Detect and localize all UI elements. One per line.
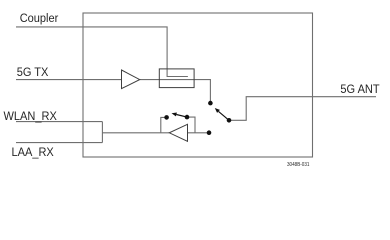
wire: 5G TX input to amplifier [16,79,122,81]
wire: WLAN_RX line (top of diplexer box) [16,121,102,123]
antenna switch pole dot [227,118,232,123]
antenna switch lever arrowhead [215,108,220,113]
wire: LAA_RX line (bottom of diplexer box) [16,142,102,144]
wire: amplifier output through filter to switch throw [140,80,211,104]
wire: bypass switch right leg [187,117,195,133]
bypass switch lever [176,115,187,118]
svg-text:Coupler: Coupler [20,13,59,25]
wire: switch pole to 5G ANT port [229,97,376,121]
svg-text:3048B-031: 3048B-031 [287,162,310,168]
svg-text:5G TX: 5G TX [17,66,49,78]
amplifier (TX PA) [122,70,140,89]
module box (FEM outline) [83,13,313,157]
antenna switch throw dot (RX) [207,130,212,135]
bypass switch right dot [185,115,190,120]
svg-text:LAA_RX: LAA_RX [12,147,55,159]
antenna switch lever [219,111,230,120]
bypass switch lever arrowhead [172,113,177,117]
svg-text:5G ANT: 5G ANT [340,83,379,95]
diplexer box right edge [101,122,103,143]
LNA (RX amplifier, pointing left) [169,124,187,141]
filter / coupler box [159,69,194,88]
wire: Coupler port line into coupled port of filter [16,27,188,77]
antenna switch throw dot (TX) [208,101,213,106]
wire: bypass switch left leg [161,117,167,132]
wire: LNA output to diplexer box [102,132,169,134]
wire: LNA input from RX switch throw [188,132,210,134]
svg-text:WLAN_RX: WLAN_RX [4,110,58,122]
bypass switch left dot [164,115,169,120]
